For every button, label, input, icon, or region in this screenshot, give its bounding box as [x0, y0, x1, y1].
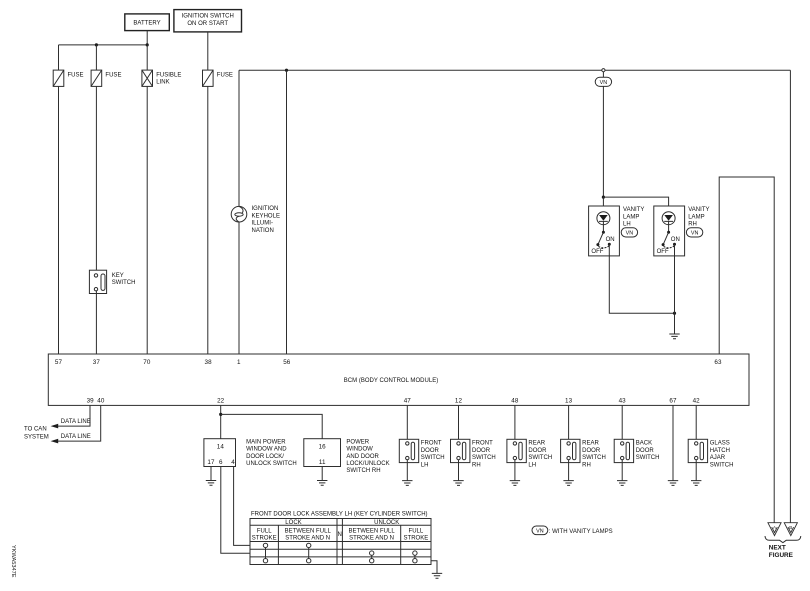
svg-text:43: 43	[619, 398, 627, 405]
wire vanity feed	[602, 72, 604, 197]
wire battery down	[146, 31, 148, 45]
vanity lamp LH	[589, 206, 645, 256]
fusible link	[142, 70, 181, 86]
ground glass hatch switch	[691, 481, 701, 486]
svg-text:LAMP: LAMP	[688, 214, 704, 220]
connector circle vanity tap	[602, 69, 605, 72]
arrow data line 39	[51, 424, 59, 429]
svg-text:SWITCH: SWITCH	[528, 455, 552, 461]
svg-text:STROKE AND N: STROKE AND N	[285, 536, 330, 542]
front door lock assembly LH (key cylinder switch)	[250, 512, 431, 565]
svg-text:DATA LINE: DATA LINE	[61, 434, 91, 440]
svg-text:IGNITION SWITCH: IGNITION SWITCH	[182, 14, 234, 20]
BCM (body control module)	[48, 354, 749, 405]
wire to fuse1	[58, 45, 60, 70]
wire vanity LH output	[609, 244, 674, 313]
label next figure	[769, 545, 794, 560]
svg-text:FUSE: FUSE	[217, 72, 233, 78]
svg-text:A: A	[773, 525, 776, 530]
wire into vanity lamp LH	[602, 197, 604, 211]
svg-text:42: 42	[693, 398, 701, 405]
svg-text:DOOR: DOOR	[421, 448, 440, 454]
svg-text:SYSTEM: SYSTEM	[24, 434, 49, 440]
svg-text:AND DOOR: AND DOOR	[346, 454, 379, 460]
svg-text:DOOR: DOOR	[472, 448, 491, 454]
svg-text:MAIN POWER: MAIN POWER	[246, 439, 286, 445]
svg-text:VN: VN	[691, 231, 699, 237]
svg-text:KEY: KEY	[112, 273, 124, 279]
wire pin 43	[621, 405, 623, 441]
svg-text:37: 37	[93, 359, 101, 366]
contact lock between row A	[307, 543, 311, 547]
wire pin17 to ground	[210, 467, 212, 481]
svg-text:ON: ON	[671, 237, 680, 243]
wire to fusible link	[146, 45, 148, 70]
svg-text:TO CAN: TO CAN	[24, 427, 47, 433]
svg-text:: WITH VANITY LAMPS: : WITH VANITY LAMPS	[549, 529, 613, 535]
svg-text:LOCK: LOCK	[285, 520, 301, 526]
wire contact link lock between	[308, 548, 310, 559]
svg-text:FRONT: FRONT	[421, 441, 442, 447]
wire vanity RH output	[674, 244, 676, 334]
ground key cylinder switch	[432, 573, 442, 578]
ground main power switch	[206, 481, 216, 486]
contact unlock between row B	[370, 551, 374, 555]
wire pin 48	[514, 405, 516, 441]
wire front door switch RH ground	[458, 460, 460, 481]
svg-text:BATTERY: BATTERY	[133, 21, 160, 27]
ground rear door switch LH	[510, 481, 520, 486]
svg-text:VN: VN	[600, 80, 608, 86]
svg-text:STROKE: STROKE	[404, 536, 429, 542]
wire back door switch ground	[621, 460, 623, 481]
label VN oval legend	[532, 526, 548, 535]
svg-text:HATCH: HATCH	[710, 448, 730, 454]
svg-text:DATA LINE: DATA LINE	[61, 419, 91, 425]
vanity lamp RH	[654, 206, 710, 256]
back door switch	[614, 439, 659, 462]
wire pin 56	[286, 70, 288, 354]
svg-text:STROKE: STROKE	[252, 536, 277, 542]
svg-text:BETWEEN FULL: BETWEEN FULL	[348, 529, 395, 535]
svg-text:SWITCH: SWITCH	[112, 280, 136, 286]
svg-text:OFF: OFF	[591, 249, 603, 255]
wire lamp bus	[239, 69, 790, 71]
svg-text:FIGURE: FIGURE	[769, 552, 794, 559]
wire pin 12	[458, 405, 460, 441]
svg-text:POWER: POWER	[346, 439, 369, 445]
ground front door switch RH	[453, 481, 463, 486]
svg-text:RH: RH	[582, 462, 591, 468]
wire data line pin 40	[58, 405, 101, 441]
svg-text:IGNITION: IGNITION	[252, 206, 279, 212]
wire pin 47	[406, 405, 408, 441]
node junction pin56	[285, 69, 288, 72]
label to CAN system	[24, 427, 49, 441]
svg-text:FULL: FULL	[257, 529, 272, 535]
ground vanity lamps	[669, 334, 679, 339]
power window and door lock/unlock switch RH	[304, 439, 390, 475]
ground rear door switch RH	[563, 481, 573, 486]
wire front door switch LH ground	[406, 460, 408, 481]
wire fuse2 to key switch	[95, 86, 97, 273]
wire fuse1 to BCM pin 57	[58, 86, 60, 354]
svg-text:63: 63	[714, 359, 722, 366]
contact unlock full stroke row B	[413, 551, 417, 555]
svg-text:57: 57	[55, 359, 63, 366]
node junction fuse2	[95, 43, 98, 46]
svg-text:VN: VN	[536, 529, 544, 535]
svg-text:6: 6	[219, 459, 223, 466]
svg-text:B: B	[789, 525, 792, 530]
svg-text:DOOR: DOOR	[528, 448, 547, 454]
svg-text:40: 40	[97, 398, 105, 405]
wire pin 42	[695, 405, 697, 441]
brace next figure	[765, 536, 801, 543]
svg-text:REAR: REAR	[528, 441, 545, 447]
wire pin1 with keyhole lamp	[238, 70, 240, 354]
fuse F3 (ignition)	[203, 70, 233, 86]
svg-text:BCM (BODY CONTROL MODULE): BCM (BODY CONTROL MODULE)	[344, 378, 439, 384]
wire branch to vanity lamp RH	[603, 197, 668, 211]
svg-text:NATION: NATION	[252, 228, 274, 234]
svg-text:N: N	[338, 532, 342, 538]
connector triangle A next figure	[768, 523, 781, 536]
wire data line pin 39	[58, 405, 91, 426]
svg-text:FUSE: FUSE	[68, 72, 84, 78]
contact row C lock full	[263, 559, 267, 563]
svg-text:LINK: LINK	[156, 80, 169, 86]
svg-text:DOOR: DOOR	[636, 448, 655, 454]
svg-text:BACK: BACK	[636, 441, 652, 447]
contact row C lock between	[307, 559, 311, 563]
svg-text:22: 22	[217, 398, 225, 405]
svg-text:WINDOW AND: WINDOW AND	[246, 447, 287, 453]
wire fusible link to BCM pin 70	[146, 86, 148, 354]
rear door switch RH	[561, 439, 606, 468]
svg-text:OFF: OFF	[657, 249, 669, 255]
svg-text:LAMP: LAMP	[623, 214, 639, 220]
glass hatch ajar switch	[688, 439, 733, 468]
node junction vanity lamps	[602, 196, 605, 199]
svg-text:38: 38	[204, 359, 212, 366]
svg-text:KEYHOLE: KEYHOLE	[252, 213, 281, 219]
svg-text:11: 11	[319, 459, 326, 466]
connector triangle B next figure	[784, 523, 797, 536]
label VN oval RH	[686, 228, 702, 237]
node junction vanity ground	[673, 312, 676, 315]
svg-text:GLASS: GLASS	[710, 441, 730, 447]
node junction pin22 branch	[219, 413, 222, 416]
svg-text:70: 70	[143, 359, 151, 366]
fuse F1	[53, 70, 83, 86]
svg-text:SWITCH: SWITCH	[710, 462, 734, 468]
wire ignition switch to fuse	[207, 32, 209, 70]
svg-text:RH: RH	[472, 462, 481, 468]
key switch	[89, 270, 135, 293]
wire pin11 to ground	[321, 467, 323, 481]
svg-text:ON OR START: ON OR START	[187, 21, 228, 27]
label VN oval top	[595, 77, 611, 86]
wire pin 22	[220, 405, 222, 438]
svg-text:AJAR: AJAR	[710, 455, 726, 461]
ground pin 67	[668, 481, 678, 486]
svg-text:47: 47	[404, 398, 412, 405]
svg-text:56: 56	[283, 359, 291, 366]
wire rear door switch RH ground	[568, 460, 570, 481]
svg-text:STROKE AND N: STROKE AND N	[349, 536, 394, 542]
wire pin6 to key cylinder row B	[221, 467, 250, 554]
wire pin 67 to ground	[672, 405, 674, 480]
svg-text:16: 16	[319, 443, 327, 450]
lamp ignition keyhole illumination	[231, 206, 280, 234]
svg-text:LOCK/UNLOCK: LOCK/UNLOCK	[346, 461, 389, 467]
ground back door switch	[617, 481, 627, 486]
wire branch to RH switch	[221, 414, 323, 438]
svg-text:DOOR: DOOR	[582, 448, 601, 454]
wire fuse F3 to BCM pin 38	[207, 86, 209, 354]
wire pin 13	[568, 405, 570, 441]
svg-text:FRONT DOOR LOCK ASSEMBLY LH (K: FRONT DOOR LOCK ASSEMBLY LH (KEY CYLINDE…	[251, 512, 428, 518]
svg-text:ON: ON	[606, 237, 615, 243]
wire glass hatch switch ground	[695, 460, 697, 481]
svg-text:39: 39	[87, 398, 95, 405]
svg-text:NEXT: NEXT	[769, 545, 786, 552]
svg-text:LH: LH	[623, 222, 631, 228]
wire to fuse2	[95, 45, 97, 70]
svg-text:FUSIBLE: FUSIBLE	[156, 72, 181, 78]
svg-text:RH: RH	[688, 222, 697, 228]
contact row C unlock between	[370, 559, 374, 563]
wire battery bus	[59, 44, 148, 46]
ground front door switch LH	[402, 481, 412, 486]
svg-text:SWITCH: SWITCH	[421, 455, 445, 461]
svg-text:SWITCH: SWITCH	[582, 455, 606, 461]
contact lock full stroke row A	[263, 543, 267, 547]
svg-text:LH: LH	[421, 462, 429, 468]
svg-text:4: 4	[231, 459, 235, 466]
fuse F2	[91, 70, 121, 86]
svg-text:VANITY: VANITY	[688, 207, 709, 213]
front door switch RH	[451, 439, 496, 468]
svg-text:ILLUMI-: ILLUMI-	[252, 221, 273, 227]
node junction fusible link	[146, 43, 149, 46]
arrow data line 40	[51, 439, 59, 444]
main power window and door lock/unlock switch	[204, 439, 297, 467]
wire pin4 to key cylinder row A	[234, 467, 250, 546]
svg-text:SWITCH: SWITCH	[636, 455, 660, 461]
front door switch LH	[399, 439, 444, 468]
svg-text:REAR: REAR	[582, 441, 599, 447]
svg-text:UNLOCK: UNLOCK	[374, 520, 399, 526]
wire rear door switch LH ground	[514, 460, 516, 481]
svg-text:DOOR LOCK/: DOOR LOCK/	[246, 454, 284, 460]
svg-text:BETWEEN FULL: BETWEEN FULL	[285, 529, 332, 535]
svg-text:VANITY: VANITY	[623, 207, 644, 213]
wire contact link unlock full	[414, 555, 416, 558]
svg-text:13: 13	[565, 398, 573, 405]
svg-text:SWITCH: SWITCH	[472, 455, 496, 461]
rear door switch LH	[507, 439, 552, 468]
battery	[125, 14, 170, 31]
svg-text:12: 12	[455, 398, 463, 405]
wire pin63 to next figure A	[719, 177, 774, 523]
svg-text:FRONT: FRONT	[472, 441, 493, 447]
label VN oval LH	[621, 228, 637, 237]
svg-text:WINDOW: WINDOW	[346, 447, 373, 453]
svg-text:LH: LH	[528, 462, 536, 468]
ground power window switch RH	[317, 481, 327, 486]
svg-text:1: 1	[237, 359, 241, 366]
ignition switch box	[174, 10, 242, 32]
svg-text:SWITCH RH: SWITCH RH	[346, 468, 380, 474]
wire bus to next figure B	[789, 70, 791, 523]
wire contact link lock full	[265, 548, 267, 559]
svg-text:FUSE: FUSE	[105, 72, 121, 78]
wire key cylinder common to ground	[431, 561, 437, 574]
svg-text:14: 14	[217, 443, 225, 450]
svg-text:FULL: FULL	[409, 529, 424, 535]
svg-text:67: 67	[669, 398, 677, 405]
wire key switch to BCM pin 37	[95, 291, 97, 354]
svg-text:VN: VN	[626, 231, 634, 237]
svg-text:17: 17	[207, 459, 215, 466]
svg-text:48: 48	[511, 398, 519, 405]
contact row C unlock full	[413, 559, 417, 563]
svg-text:UNLOCK SWITCH: UNLOCK SWITCH	[246, 461, 297, 467]
wire contact link unlock between	[371, 555, 373, 558]
svg-text:YKWA5347E: YKWA5347E	[10, 545, 16, 578]
